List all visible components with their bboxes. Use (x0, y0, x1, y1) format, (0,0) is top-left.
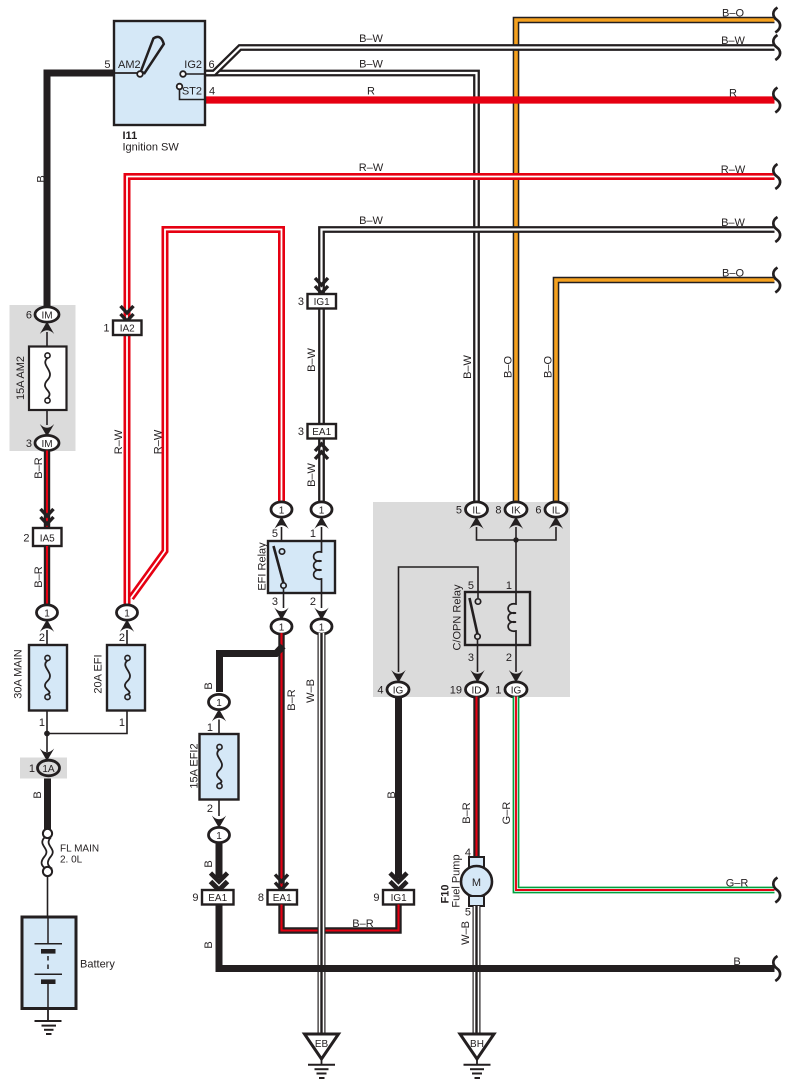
svg-text:B–R: B–R (461, 802, 473, 823)
wires joining IL-IK-IL (477, 527, 557, 540)
break symbol B-O (773, 8, 780, 33)
svg-text:IG: IG (511, 686, 522, 697)
svg-text:5: 5 (272, 528, 278, 540)
connector 6 IL (535, 502, 567, 529)
fuse 30A MAIN (13, 645, 68, 729)
wire B-O down to connector IK pin 8 (516, 20, 775, 503)
svg-text:5: 5 (104, 59, 110, 71)
svg-text:B–W: B–W (721, 217, 745, 229)
svg-text:AM2: AM2 (118, 59, 141, 71)
EFI relay (257, 502, 336, 634)
svg-text:W–B: W–B (305, 679, 317, 703)
wire 30A MAIN to junction (46, 711, 48, 734)
relay block C/OPN (gray) (373, 502, 570, 697)
svg-text:B–R: B–R (286, 689, 298, 710)
svg-text:B–W: B–W (359, 59, 383, 71)
break symbol G-R (773, 878, 780, 903)
svg-text:M: M (472, 877, 481, 889)
wire B node to connector 9 EA1 (216, 843, 223, 879)
svg-text:B: B (203, 682, 215, 689)
wire W-B fuel pump to ground BH (473, 906, 481, 1034)
svg-text:3: 3 (272, 596, 278, 608)
break symbol B-W (773, 35, 780, 60)
wire B-W between IG1 and EA1 (318, 309, 325, 425)
svg-text:W–B: W–B (460, 921, 472, 945)
svg-text:IG1: IG1 (391, 893, 408, 904)
node 1 above 15A EFI2 (207, 694, 230, 734)
svg-text:1: 1 (119, 717, 125, 729)
svg-text:1: 1 (495, 685, 501, 697)
svg-text:3: 3 (468, 652, 474, 664)
fuse 20A EFI (93, 645, 146, 729)
svg-text:1: 1 (506, 580, 512, 592)
svg-text:EA1: EA1 (208, 893, 227, 904)
svg-text:3: 3 (26, 438, 32, 450)
svg-text:B–O: B–O (543, 356, 555, 378)
svg-text:C/OPN Relay: C/OPN Relay (452, 584, 464, 651)
svg-text:8: 8 (495, 505, 501, 517)
break symbol B (773, 956, 780, 981)
svg-text:8: 8 (258, 892, 264, 904)
connector highlight 1A (gray band) (20, 758, 67, 779)
connector 5 IL (456, 502, 488, 529)
connector 19 ID (450, 670, 488, 697)
fuel pump F10 (440, 847, 493, 919)
svg-text:R: R (729, 88, 737, 100)
battery (22, 917, 115, 1009)
wire 20A EFI to junction (47, 711, 127, 734)
svg-text:R–W: R–W (113, 429, 125, 454)
wire R-W from IA2 down to node 1 (124, 335, 131, 607)
svg-text:2: 2 (207, 803, 213, 815)
svg-text:4: 4 (377, 685, 383, 697)
svg-text:R–W: R–W (721, 164, 746, 176)
connector 9 IG1 (373, 873, 414, 905)
svg-text:1: 1 (124, 609, 130, 620)
svg-text:1: 1 (279, 506, 285, 517)
svg-text:B–W: B–W (306, 347, 318, 371)
connector 2 IA5 (23, 509, 61, 546)
svg-text:EA1: EA1 (312, 427, 331, 438)
svg-text:B: B (733, 956, 740, 968)
connector 1 1A (29, 749, 60, 776)
connector 3 EA1 (298, 424, 336, 459)
wire B branch to 15A EFI2 (thick elbow) (220, 646, 284, 692)
svg-text:15A EFI2: 15A EFI2 (189, 743, 201, 788)
svg-text:Fuel Pump: Fuel Pump (451, 854, 463, 907)
svg-text:R: R (367, 86, 375, 98)
svg-text:IK: IK (511, 506, 521, 517)
svg-text:IM: IM (41, 439, 52, 450)
wire R-W from right edge to connector IA2 (127, 177, 775, 321)
C/OPN relay (452, 580, 531, 672)
svg-text:1: 1 (319, 623, 325, 634)
connector 1 IA2 (103, 306, 141, 335)
wire B-O down to connector IL pin 6 (556, 280, 775, 503)
svg-text:B–R: B–R (352, 918, 373, 930)
ground BH (460, 1034, 494, 1078)
svg-text:IA2: IA2 (120, 324, 135, 335)
svg-text:1: 1 (44, 609, 50, 620)
svg-text:2: 2 (506, 652, 512, 664)
svg-text:1: 1 (216, 698, 222, 709)
node 1 above 30A MAIN (37, 605, 58, 645)
svg-text:B–W: B–W (359, 215, 383, 227)
wire B bottom run to right edge (219, 905, 775, 969)
svg-text:5: 5 (456, 505, 462, 517)
svg-text:3: 3 (298, 426, 304, 438)
svg-text:IG: IG (393, 686, 404, 697)
wire B-W from IG2 upper branch to right edge (205, 48, 775, 74)
svg-text:Ignition SW: Ignition SW (123, 142, 180, 154)
svg-text:FL MAIN: FL MAIN (60, 844, 99, 855)
wire B-R fuse block to IA5 (44, 451, 50, 529)
connector 6 IM (26, 307, 59, 347)
connector 9 EA1 (192, 873, 233, 905)
svg-text:4: 4 (209, 86, 215, 98)
WIRES-OVER (127, 48, 775, 607)
wire R from ST2 to right edge (205, 96, 775, 103)
connector 4 IG (377, 670, 409, 697)
svg-text:B: B (36, 175, 48, 182)
connector 3 IG1 (298, 278, 336, 309)
wire G-R 1 IG to right edge (516, 697, 775, 891)
wire B-R IA5 to node 1 (44, 546, 50, 605)
svg-text:G–R: G–R (501, 802, 513, 825)
svg-text:B–R: B–R (33, 566, 45, 587)
junction dot (44, 731, 50, 737)
svg-text:B–W: B–W (462, 354, 474, 378)
WIRES-UNDER (10, 20, 775, 779)
wire B connector 1A to fusible link (44, 779, 51, 830)
wire B-W from right edge to connector IG1 (322, 230, 775, 295)
wire B from 4 IG down to connector 9 IG1 (395, 697, 402, 879)
svg-text:Battery: Battery (80, 959, 115, 971)
svg-text:6: 6 (209, 59, 215, 71)
svg-text:ID: ID (472, 686, 482, 697)
svg-text:G–R: G–R (726, 878, 749, 890)
ground battery (35, 1009, 62, 1035)
svg-text:R–W: R–W (153, 429, 165, 454)
svg-text:EFI Relay: EFI Relay (257, 542, 269, 591)
wire B from ignition AM2 to fuse block (47, 73, 114, 308)
connector 1 IG (495, 670, 527, 697)
svg-text:1: 1 (39, 717, 45, 729)
ignition switch I11 (104, 21, 215, 154)
svg-text:5: 5 (465, 907, 471, 919)
wire B-R linking 8 EA1 to 9 IG1 (282, 905, 399, 931)
svg-text:IA5: IA5 (40, 534, 55, 545)
fuse 15A EFI2 (189, 734, 239, 800)
svg-text:IG1: IG1 (314, 297, 331, 308)
svg-text:2: 2 (310, 596, 316, 608)
svg-text:B–W: B–W (306, 462, 318, 486)
svg-text:R–W: R–W (359, 162, 384, 174)
wire B-R 19 ID to fuel pump (473, 697, 479, 859)
svg-text:I11: I11 (123, 130, 138, 142)
svg-text:1: 1 (103, 323, 109, 335)
svg-text:IG2: IG2 (184, 59, 202, 71)
svg-text:1A: 1A (42, 764, 55, 775)
break symbol B-W lower (773, 217, 780, 242)
svg-text:B–R: B–R (33, 457, 45, 478)
fuse 15A AM2 (15, 347, 67, 411)
wire junction to connector 1A (46, 734, 48, 753)
svg-text:EA1: EA1 (273, 893, 292, 904)
connector 3 IM (26, 410, 59, 451)
svg-text:19: 19 (450, 685, 462, 697)
connector 8 EA1 (258, 875, 297, 905)
svg-text:2. 0L: 2. 0L (60, 855, 83, 866)
svg-text:1: 1 (279, 623, 285, 634)
svg-text:30A MAIN: 30A MAIN (13, 649, 25, 699)
svg-text:9: 9 (373, 892, 379, 904)
svg-text:B–O: B–O (722, 268, 744, 280)
svg-text:IL: IL (552, 506, 561, 517)
svg-text:2: 2 (39, 632, 45, 644)
svg-text:BH: BH (470, 1039, 484, 1050)
svg-text:3: 3 (298, 296, 304, 308)
svg-text:B–W: B–W (359, 33, 383, 45)
svg-text:B–O: B–O (722, 8, 744, 20)
svg-text:B: B (203, 860, 215, 867)
svg-text:2: 2 (23, 533, 29, 545)
svg-text:B: B (203, 941, 215, 948)
fuse holder block 15A AM2 (gray) (10, 305, 76, 451)
wire B-W from EA1 down to EFI relay pin 1 (318, 439, 325, 504)
break symbol R (773, 88, 780, 113)
svg-text:5: 5 (468, 580, 474, 592)
junction dot (513, 537, 518, 542)
svg-text:IM: IM (41, 311, 52, 322)
wire B-W from IG2 down to connector IL pin 5 (205, 73, 477, 503)
svg-text:B: B (386, 791, 398, 798)
svg-text:1: 1 (207, 722, 213, 734)
svg-text:9: 9 (192, 892, 198, 904)
fusible link FL MAIN 2.0L (42, 829, 100, 876)
svg-text:15A AM2: 15A AM2 (15, 356, 27, 400)
wire fusible link to battery (47, 876, 49, 917)
wire C/OPN pin 5 to 4 IG (399, 567, 479, 672)
svg-text:6: 6 (535, 505, 541, 517)
svg-text:B–O: B–O (503, 356, 515, 378)
svg-text:20A EFI: 20A EFI (93, 654, 105, 693)
svg-text:6: 6 (26, 310, 32, 322)
node 1 below 15A EFI2 (207, 800, 230, 843)
svg-text:2: 2 (119, 632, 125, 644)
node 1 above 20A EFI (117, 605, 138, 645)
svg-text:1: 1 (310, 528, 316, 540)
svg-text:ST2: ST2 (182, 86, 202, 98)
svg-text:1: 1 (216, 831, 222, 842)
break symbol B-O lower (773, 268, 780, 293)
svg-text:B–W: B–W (721, 35, 745, 47)
svg-text:1: 1 (319, 506, 325, 517)
svg-text:B: B (32, 791, 44, 798)
connector 8 IK (495, 502, 527, 529)
break symbol R-W (773, 164, 780, 189)
svg-text:IL: IL (472, 506, 481, 517)
svg-text:EB: EB (315, 1039, 329, 1050)
svg-text:1: 1 (29, 763, 35, 775)
ground EB (305, 1034, 339, 1078)
wire R-W from node 1 up and over to EFI relay pin 5 (131, 230, 282, 599)
wire B-R EFI relay pin 3 down to connector 8 EA1 (278, 633, 284, 890)
wire W-B EFI relay pin 2 to ground EB (318, 633, 326, 1034)
